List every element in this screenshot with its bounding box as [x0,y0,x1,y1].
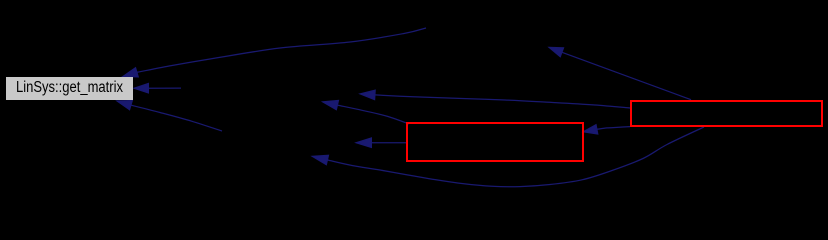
node N1 (red, truncated caller) [407,123,583,161]
wire edge-d (from red node N2 top edge to hidden node) [549,47,691,99]
wire edge-h (red node N2 to red node N1) [583,125,630,135]
node LinSys::get_matrix (current node, grey) [6,77,133,100]
wire edge-f (horizontal from red node N1 to hidden node) [356,138,406,148]
wire edge-b (horizontal arrow into LinSys::get_matrix) [134,83,181,93]
node N2 (red, truncated caller) [631,101,822,126]
wire edge-g (long bottom curve from red node N2) [312,127,704,187]
svg-text:LinSys::get_matrix: LinSys::get_matrix [16,79,123,96]
wire edge-c (arrow into LinSys::get_matrix bottom corner) [117,101,222,132]
wire edge-a (callee to LinSys::get_matrix, top curve) [123,28,427,77]
wire edge-e (from red node N1 top-left to hidden node) [323,100,410,124]
wire edge-i (red node N2 left edge to hidden node) [360,90,630,108]
